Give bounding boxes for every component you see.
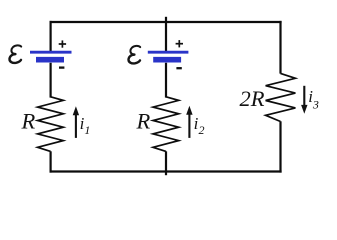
current label i3	[308, 87, 319, 112]
svg-text:R: R	[136, 108, 151, 133]
svg-text:2: 2	[199, 123, 205, 137]
wire middle branch lower (resistor R2 to bottom rail)	[165, 151, 167, 175]
wire right branch upper (top rail to resistor R3)	[279, 21, 281, 74]
wire bottom rail	[50, 170, 282, 172]
battery E2 minus sign	[176, 67, 181, 69]
battery E2 plus sign	[176, 40, 183, 47]
battery E1 negative plate	[36, 57, 64, 63]
current arrow i2	[186, 106, 192, 138]
current label i2	[194, 114, 205, 137]
wire middle branch upper (top rail to battery E2)	[165, 17, 167, 51]
wire left branch middle (battery E1 to resistor R1)	[49, 63, 51, 98]
resistor R2 zigzag	[153, 97, 179, 152]
wire left branch lower (resistor R1 to bottom rail)	[49, 151, 51, 172]
resistor R3 zigzag	[266, 73, 296, 121]
battery E1 positive plate	[30, 51, 72, 54]
battery E2 positive plate	[148, 51, 189, 54]
wire left branch upper (top rail to battery E1)	[49, 21, 51, 51]
svg-text:R: R	[21, 108, 36, 133]
svg-text:2R: 2R	[240, 86, 265, 111]
battery E1 minus sign	[59, 66, 64, 68]
wire middle branch middle (battery E2 to resistor R2)	[165, 63, 167, 98]
svg-text:1: 1	[84, 123, 90, 137]
EMF label E1 (script E)	[9, 45, 21, 63]
battery E1 plus sign	[59, 40, 66, 47]
resistor R1 zigzag	[38, 97, 64, 152]
wire right branch lower (resistor R3 to bottom rail)	[279, 121, 281, 172]
EMF label E2 (script E)	[128, 46, 140, 64]
wire top rail	[50, 21, 282, 23]
current label i1	[80, 114, 91, 137]
svg-text:3: 3	[312, 98, 319, 112]
battery E2 negative plate	[153, 57, 181, 63]
current arrow i1	[73, 106, 79, 138]
current arrow i3	[301, 86, 307, 114]
